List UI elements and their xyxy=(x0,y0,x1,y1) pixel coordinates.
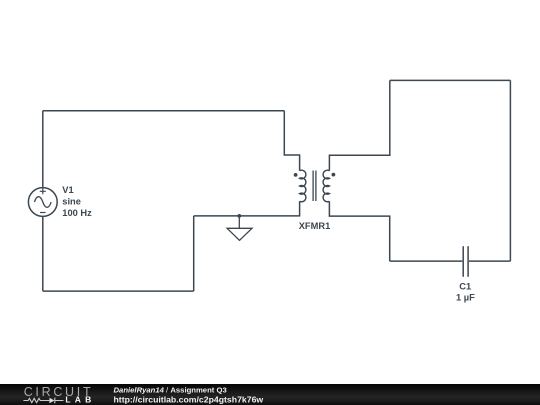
wire primary mid vertical xyxy=(193,216,195,291)
wire secondary right vertical xyxy=(509,80,511,261)
logo resistor zigzag and diode xyxy=(23,398,63,404)
voltage source V1 xyxy=(28,188,57,217)
label V1 xyxy=(62,185,92,218)
wire secondary top lead xyxy=(329,80,389,170)
phase dot secondary xyxy=(332,173,336,177)
wire capacitor left xyxy=(390,260,463,262)
wire capacitor right xyxy=(469,260,510,262)
svg-text:http://circuitlab.com/c2p4gtsh: http://circuitlab.com/c2p4gtsh7k76w xyxy=(114,395,264,405)
wire primary bottom to transformer xyxy=(194,201,300,216)
svg-text:LAB: LAB xyxy=(65,395,95,405)
wire V1 bottom lead xyxy=(42,216,44,291)
ground junction dot xyxy=(237,214,241,218)
footer bar xyxy=(0,384,540,405)
ground symbol xyxy=(227,216,252,240)
wire primary top right step xyxy=(284,111,299,171)
wire secondary bottom lead xyxy=(329,201,389,261)
capacitor C1 xyxy=(463,246,468,277)
phase dot primary xyxy=(294,173,298,177)
transformer XFMR1 secondary winding xyxy=(323,170,329,201)
wire primary top horizontal xyxy=(43,110,284,112)
wire secondary top horizontal xyxy=(390,79,511,81)
transformer XFMR1 primary winding xyxy=(300,170,306,201)
transformer core lines xyxy=(313,171,316,202)
wire V1 top lead xyxy=(42,111,44,188)
svg-text:DanielRyan14 / Assignment Q3: DanielRyan14 / Assignment Q3 xyxy=(114,385,227,394)
label C1 xyxy=(456,281,475,302)
wire primary bottom horizontal xyxy=(43,290,194,292)
